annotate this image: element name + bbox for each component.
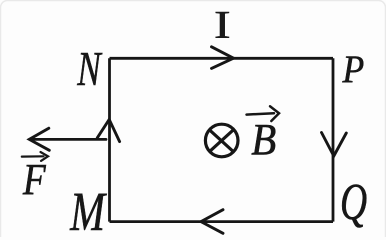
svg-text:N: N [76,43,102,97]
current direction arrow on bottom wire (leftward) [201,210,223,234]
svg-text:B: B [251,116,276,165]
wire M-N (left side of loop) [108,58,111,221]
svg-text:Q: Q [340,172,367,231]
svg-text:M: M [69,181,107,237]
label B (magnetic field) with vector overbar arrow [247,106,280,164]
force vector F arrow (pointing left from wire MN) [29,128,106,150]
magnetic field symbol: circled X (B into the page) [205,124,238,157]
wire Q-M (bottom side of loop) [110,220,334,223]
current direction arrow on left wire (upward) [97,120,119,142]
current direction arrow on right wire (downward) [322,133,347,157]
wire N-P (top side of loop) [110,57,334,60]
svg-text:P: P [341,48,364,91]
label F (force) with vector overbar arrow [22,152,48,204]
svg-text:I: I [214,3,231,46]
svg-text:F: F [22,155,47,203]
wire P-Q (right side of loop) [332,58,335,221]
current direction arrow on top wire (rightward) [212,47,234,69]
